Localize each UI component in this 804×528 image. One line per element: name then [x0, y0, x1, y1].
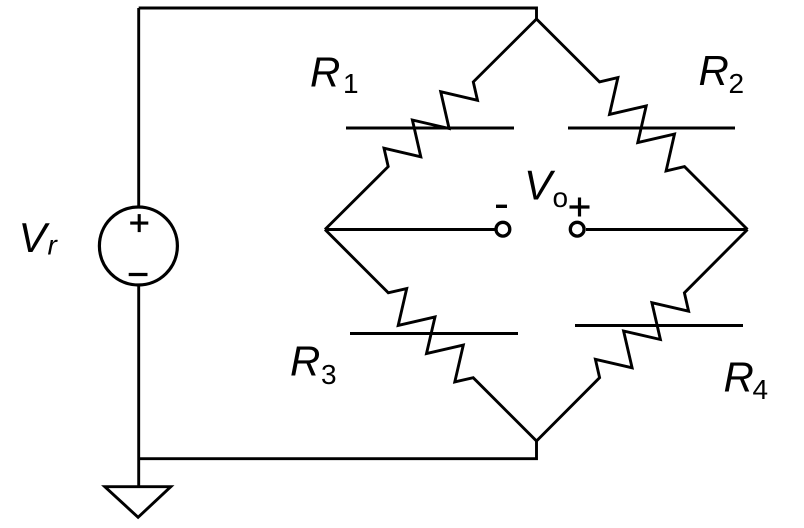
svg-text:R: R [699, 47, 729, 94]
wiper line through R4 [575, 324, 743, 327]
wire Vo plus terminal to right vertex [586, 228, 748, 231]
minus sign inside source [129, 273, 148, 276]
wiper line through R2 [568, 127, 735, 130]
svg-text:R: R [290, 338, 320, 385]
resistor R3 [325, 230, 537, 442]
node Vo plus terminal [570, 222, 584, 236]
svg-text:R: R [310, 48, 340, 95]
wiper line through R1 [346, 127, 514, 130]
resistor R4 [537, 230, 748, 442]
svg-text:2: 2 [729, 68, 745, 99]
minus polarity mark [496, 205, 507, 208]
wire left rail down to source + [137, 8, 140, 208]
plus polarity mark [570, 198, 590, 217]
svg-text:V: V [524, 161, 556, 208]
svg-text:R: R [724, 354, 754, 401]
resistor R1 [325, 19, 537, 230]
svg-text:V: V [19, 214, 51, 261]
svg-text:4: 4 [753, 374, 769, 405]
wiper line through R3 [350, 332, 518, 335]
svg-text:1: 1 [343, 68, 359, 99]
wire bottom rail from bridge bottom node to left rail [139, 441, 537, 459]
node Vo minus terminal [496, 222, 510, 236]
ground [105, 487, 171, 518]
voltage source Vr [99, 207, 177, 285]
wire left vertex to Vo minus terminal [325, 228, 495, 231]
wire top rail from source to bridge top node [139, 8, 537, 19]
wire source - down past bottom rail to ground [137, 284, 140, 487]
plus sign inside source [130, 214, 148, 232]
svg-text:3: 3 [321, 359, 337, 390]
svg-text:o: o [553, 182, 569, 213]
resistor R2 [537, 19, 748, 230]
